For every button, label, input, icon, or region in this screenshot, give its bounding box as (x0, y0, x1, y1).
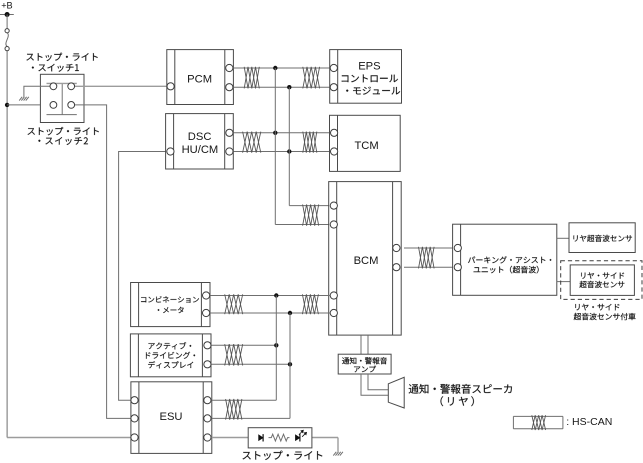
rear ultrasonic sensor box (569, 223, 635, 253)
ground G1 (19, 97, 29, 101)
twisted pair combi (225, 294, 243, 314)
junction CAN-L mid (287, 149, 291, 153)
twisted pair PCM (244, 67, 259, 89)
rear side sensor label (580, 272, 625, 288)
wire switch 2 to ESU (75, 105, 132, 419)
wire combi CAN-H (210, 295, 331, 297)
svg-text:DSC: DSC (188, 131, 212, 143)
CAN-L bus line (288, 87, 290, 205)
wire bus to BCM CAN-L (289, 205, 330, 207)
fuse F1 (5, 29, 9, 51)
svg-text:HU/CM: HU/CM (182, 144, 219, 156)
TCM pins (331, 129, 338, 155)
wire PCM CAN-L (233, 86, 331, 88)
svg-text:TCM: TCM (354, 140, 378, 152)
rear sensor label (574, 235, 633, 242)
switch actuator stem (61, 83, 63, 114)
EPS control module box (330, 50, 402, 104)
DSC pins (167, 129, 233, 155)
parking pins (454, 244, 461, 270)
LED D2 (296, 434, 300, 441)
wire BCM to parking H (404, 247, 454, 249)
junction lower CAN-H (274, 293, 278, 297)
wire ground to switch 1 (24, 86, 51, 97)
legend twist symbol (532, 415, 546, 430)
amp label (342, 357, 387, 372)
svg-text:ESU: ESU (159, 411, 182, 423)
wire ESU CAN-H (211, 399, 276, 401)
wire parking to rear sensor (557, 237, 569, 239)
wire +B feed (0, 14, 14, 16)
legend twisted pair wires (513, 416, 563, 428)
ESU pins (131, 397, 211, 442)
wire main feed vertical (6, 51, 8, 438)
PCM box (167, 50, 234, 105)
combination meter label (141, 296, 199, 313)
EPS pins (330, 64, 337, 90)
twisted pair EPS (303, 67, 320, 89)
wire BCM to amp 2 (367, 335, 369, 354)
lower CAN-L bus line (289, 313, 291, 418)
wire PCM CAN-H (233, 67, 331, 69)
twisted pair ESU (226, 399, 242, 420)
junction +B (5, 12, 10, 17)
label stop light switch 2 (28, 127, 99, 145)
label stop light (243, 451, 323, 460)
label speaker (409, 384, 512, 406)
svg-text:EPS: EPS (358, 61, 380, 73)
junction CAN-L top (287, 85, 291, 89)
wire bus to BCM CAN-H (275, 224, 330, 226)
label stop light switch 1 (26, 53, 97, 72)
wire amp to speaker 1 (361, 374, 388, 395)
display label (146, 342, 195, 368)
active driving display box (130, 334, 211, 377)
wire switch 1 to PCM (75, 85, 168, 87)
junction display CAN-H (274, 343, 278, 347)
lower CAN-H bus line (275, 296, 277, 401)
ground G2 (333, 452, 343, 456)
BCM pins (330, 202, 400, 317)
LED arrows (299, 430, 307, 437)
combination meter box (131, 283, 210, 327)
junction CAN-H mid (273, 131, 277, 135)
display pins (204, 342, 211, 368)
wire feed bottom to ESU (7, 437, 131, 439)
svg-text:: HS-CAN: : HS-CAN (566, 416, 612, 428)
diode D1 (259, 434, 263, 441)
twisted pair display (225, 344, 243, 365)
twisted pair BCM lower (302, 294, 318, 314)
TCM box (330, 115, 401, 171)
wire +B to fuse (6, 15, 8, 29)
ESU box (131, 382, 212, 454)
wire ESU to stop light (211, 437, 338, 439)
wire display CAN-H (211, 344, 276, 346)
BCM box (329, 182, 402, 336)
label rear side option (574, 304, 636, 320)
dashed option box (561, 261, 642, 300)
junction feed to switch (5, 103, 9, 107)
wire amp to speaker 2 (368, 374, 388, 390)
junction display CAN-L (288, 362, 292, 366)
svg-text:+B: +B (1, 1, 13, 11)
svg-text:PCM: PCM (187, 73, 212, 85)
wire BCM to amp 1 (360, 335, 362, 354)
switch box SW (40, 74, 84, 122)
wire BCM to parking L (404, 266, 454, 268)
resistor R1 (269, 434, 290, 441)
DSC HU/CM box (166, 114, 234, 169)
svg-text:BCM: BCM (354, 255, 379, 267)
speaker SP1 (388, 377, 404, 408)
wire DSC CAN-L (233, 151, 330, 153)
junction CAN-H top (273, 66, 277, 70)
wire stop light to ground (337, 438, 339, 452)
PCM pins (167, 64, 233, 90)
switch pins (50, 83, 75, 108)
wire display CAN-L (211, 363, 290, 365)
wire ESU CAN-L (211, 417, 290, 419)
switch actuator top bar (47, 82, 77, 84)
notification amp box (338, 354, 391, 374)
parking label (468, 256, 551, 273)
twisted pair DSC (243, 132, 261, 153)
twisted pair BCM upper (303, 204, 319, 225)
CAN-H bus line (274, 68, 276, 225)
switch actuator bottom bar (47, 114, 77, 116)
stop light box (248, 428, 312, 448)
parking assist unit box (453, 224, 557, 295)
wire combi CAN-L (210, 312, 331, 314)
wire feed to switch 2 (7, 104, 50, 106)
twisted pair TCM (303, 132, 317, 153)
combination meter pins (203, 292, 210, 317)
wire DSC CAN-H (233, 132, 330, 134)
twisted pair parking (419, 247, 435, 269)
wire parking to rear side sensor (557, 281, 570, 283)
wire DSC to ESU (119, 152, 168, 401)
rear side sensor box (570, 265, 634, 296)
junction lower CAN-L (288, 311, 292, 315)
